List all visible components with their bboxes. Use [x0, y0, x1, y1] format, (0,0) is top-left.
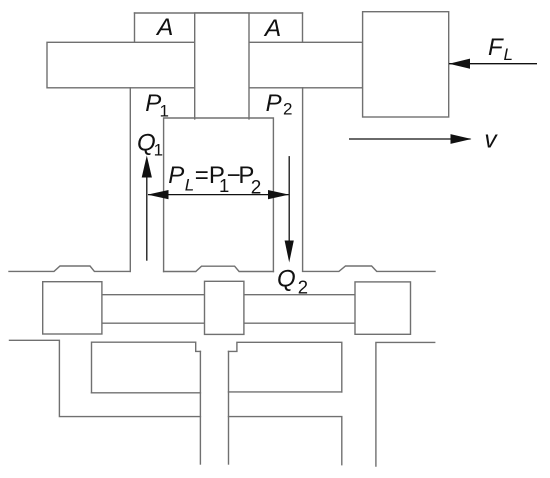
wire supply channel left wall [199, 351, 201, 464]
wire chamber A2 right wall [302, 13, 304, 42]
svg-text:F: F [488, 34, 504, 61]
svg-text:L: L [504, 45, 513, 64]
wire supply channel right wall [228, 351, 230, 464]
arrow Q2 shaft [288, 156, 290, 241]
wire left chamber outline [92, 342, 201, 393]
svg-text:A: A [155, 14, 173, 41]
wire right chamber bottom [229, 391, 342, 393]
wire sleeve lower-left L channel [10, 340, 201, 416]
svg-text:2: 2 [251, 177, 262, 198]
wire right chamber outline [229, 342, 342, 392]
piston (vertical slab) [195, 13, 249, 119]
wire spool rod bottom [102, 322, 355, 324]
svg-text:1: 1 [154, 141, 163, 160]
spool land right [355, 282, 411, 334]
arrow PL shaft [148, 194, 289, 196]
piston rod rectangle [47, 42, 363, 88]
svg-text:2: 2 [283, 100, 292, 119]
valve center body rectangle [164, 118, 274, 272]
wire sleeve top-right with bump [303, 266, 435, 271]
svg-text:Q: Q [277, 266, 296, 293]
arrowhead Q1 up [142, 156, 152, 178]
wire sleeve top-left with bump [9, 266, 130, 271]
arrowhead v right [451, 134, 472, 144]
arrow Q1 shaft [146, 176, 148, 261]
arrowhead PL right [268, 190, 289, 199]
arrowhead FL left [449, 59, 470, 69]
wire chamber A1 left wall [134, 13, 136, 42]
arrow v shaft [349, 138, 471, 140]
wire right lower return line [229, 417, 342, 465]
svg-text:P: P [168, 162, 184, 189]
svg-text:A: A [263, 15, 281, 42]
svg-text:P: P [266, 90, 282, 117]
arrow FL shaft [449, 63, 537, 65]
wire cylinder top line [135, 12, 303, 14]
wire spool rod top [102, 294, 355, 296]
wire left chamber bottom [92, 392, 201, 394]
load mass block [363, 12, 449, 117]
wire valve body bottom with port bump [164, 266, 274, 271]
arrowhead PL left [148, 190, 169, 199]
arrowhead Q2 down [285, 241, 294, 263]
svg-text:1: 1 [160, 101, 169, 120]
svg-text:v: v [484, 126, 498, 153]
wire right drain channel [376, 342, 435, 466]
spool land middle [205, 281, 244, 334]
spool land left [43, 282, 102, 334]
svg-text:2: 2 [298, 276, 308, 297]
svg-text:L: L [185, 176, 194, 195]
wire right pipe P2 passage [302, 88, 304, 271]
wire left pipe P1 passage [129, 88, 131, 272]
